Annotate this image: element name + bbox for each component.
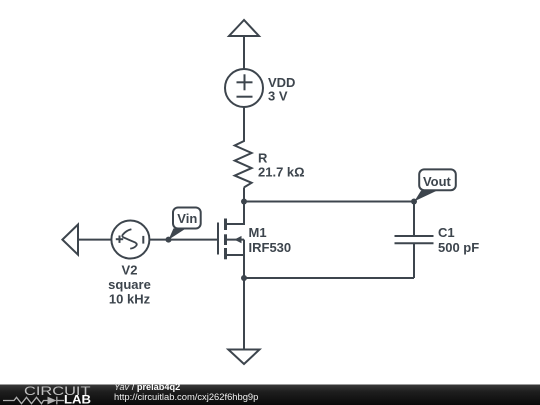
- voltage source V2: [111, 221, 149, 259]
- VDD power symbol: [229, 20, 259, 36]
- footer bar: [0, 385, 540, 405]
- wire: [78, 239, 111, 241]
- svg-text:square: square: [108, 277, 151, 292]
- wire: [149, 239, 217, 241]
- transistor M1 source lead: [227, 254, 244, 256]
- transistor M1 body arrow: [227, 236, 244, 243]
- svg-text:M1: M1: [249, 225, 267, 240]
- node drain junction: [241, 199, 247, 205]
- node Vout: [411, 199, 417, 205]
- wire: [413, 202, 415, 236]
- svg-text:10 kHz: 10 kHz: [109, 291, 151, 306]
- wire: [243, 36, 245, 70]
- svg-text:3 V: 3 V: [268, 89, 288, 104]
- node source junction: [241, 275, 247, 281]
- svg-text:IRF530: IRF530: [249, 240, 292, 255]
- transistor M1 channel dashes: [224, 219, 227, 260]
- node Vin: [166, 237, 172, 243]
- svg-text:Vout: Vout: [423, 174, 451, 189]
- CircuitLab logo squiggle (resistor + diode): [3, 397, 64, 405]
- transistor M1 gate bar: [217, 223, 219, 255]
- resistor R: [235, 141, 252, 188]
- svg-text:Vin: Vin: [177, 211, 197, 226]
- svg-text:C1: C1: [438, 225, 455, 240]
- wire: [243, 107, 245, 141]
- wire: [243, 240, 245, 278]
- svg-text:R: R: [258, 151, 268, 166]
- capacitor C1: [395, 236, 434, 243]
- wire: [243, 278, 245, 350]
- svg-text:LAB: LAB: [64, 395, 91, 405]
- wire: [244, 277, 414, 279]
- transistor M1 drain lead: [227, 202, 244, 225]
- input terminal: [62, 225, 78, 255]
- voltage source VDD: [225, 69, 263, 107]
- net flag Vout: [414, 169, 455, 201]
- wire: [243, 187, 245, 201]
- svg-text:21.7 kΩ: 21.7 kΩ: [258, 164, 305, 179]
- ground: [228, 350, 259, 365]
- svg-text:V2: V2: [122, 263, 138, 278]
- net flag Vin: [169, 208, 201, 240]
- wire: [413, 244, 415, 278]
- svg-text:500 pF: 500 pF: [438, 240, 479, 255]
- svg-text:http://circuitlab.com/cxj262f6: http://circuitlab.com/cxj262f6hbg9p: [114, 391, 258, 402]
- wire: [244, 201, 414, 203]
